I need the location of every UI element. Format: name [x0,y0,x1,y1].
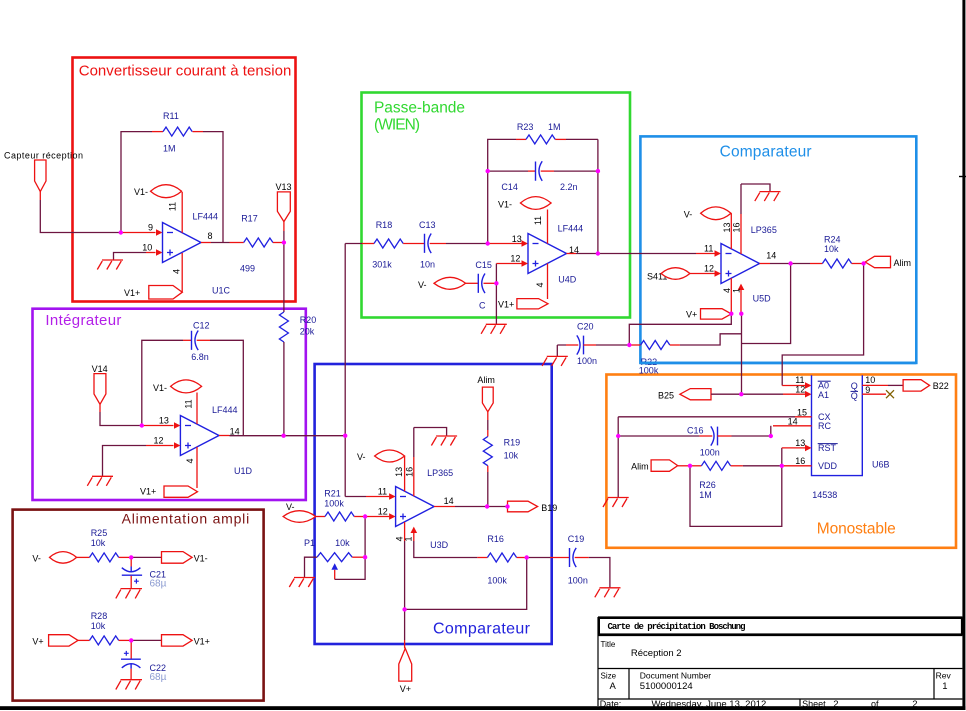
wire R20 node to comparator feed [284,435,346,437]
power flag V+ U5D [701,309,732,319]
svg-text:RC: RC [818,421,831,431]
wire V+ lead bottom comparator [404,609,406,640]
power flag Alim monostable [651,460,678,471]
capacitor C20 [577,335,584,354]
wire C14 right branch [554,170,598,172]
wire pin1 to R16 [414,541,478,558]
pin arrow 13 U4D [522,240,529,247]
node R21 pin12 [363,514,367,518]
svg-text:U1D: U1D [234,466,253,476]
wire pin10 to ground [114,253,147,260]
resistor R22 [641,341,670,350]
svg-text:1M: 1M [163,144,176,154]
wire CX down to ground [617,417,619,497]
power symbol V1- U1C [151,185,182,198]
wire R16 right lead [517,557,527,559]
svg-text:13: 13 [722,222,732,232]
capacitor C21 [122,567,142,576]
wire C22 top lead [130,640,132,659]
svg-text:R24: R24 [824,235,841,245]
svg-text:11: 11 [168,202,178,211]
wire pin12 red stub U1D [146,445,174,447]
svg-text:V1+: V1+ [124,288,140,298]
pin arrow 12 U1D [174,442,180,449]
svg-text:C15: C15 [475,260,492,270]
wire pin1 node down to B25 line [741,314,743,394]
wire U5D output to node [770,263,791,265]
power flag V1+ U1C [149,286,183,300]
port Alim R19 [482,387,493,412]
wire C15 node to ground [495,283,497,324]
svg-text:R23: R23 [517,122,534,132]
node C13 feedback [486,241,490,245]
ground C22 [116,680,142,690]
op-amp U1D triangle [180,416,219,456]
wire pin4 U4D [547,263,549,299]
ground U1D input [87,476,113,486]
svg-text:LF444: LF444 [558,224,584,234]
wire C16 left branch [618,435,699,437]
pin arrow 12 U3D [389,513,396,520]
comparator top box bottom edge overlay [640,362,916,365]
svg-text:100n: 100n [700,447,720,457]
svg-text:10k: 10k [91,538,106,548]
wire C20 to R22 node [596,344,629,346]
wire C19 left branch [527,557,550,559]
wire A1 red stub [783,393,805,395]
wire C16 discharge loop [690,466,782,527]
svg-text:Sheet: Sheet [802,699,826,709]
svg-text:C12: C12 [193,321,210,331]
wire R17 right lead [273,242,284,244]
node R28 C22 [129,638,133,642]
svg-text:1M: 1M [548,122,561,132]
wire R28 right lead [119,639,132,641]
svg-text:Q: Q [851,381,858,391]
op-amp U1D minus mark [185,425,191,427]
node R16 return V+ [402,607,406,611]
node R25 C21 [129,555,133,559]
wire R11 right lead [193,131,204,133]
wire node to pin12 U3D [365,516,389,518]
svg-text:Alim: Alim [894,258,912,268]
svg-text:16: 16 [404,467,414,477]
ground C20 [542,356,568,366]
wire C12 feedback left vertical [142,340,183,425]
wire feedback top right [566,139,598,253]
port V13 [277,192,290,222]
wire B25 to node [711,393,742,395]
svg-text:4: 4 [722,288,732,293]
wire V14 lead [99,404,101,412]
wire node to V1+ flag [131,639,161,641]
svg-text:U6B: U6B [872,460,890,470]
resistor R21 [325,512,354,521]
svg-text:68µ: 68µ [150,579,167,590]
page border tick [959,176,966,178]
pin arrow 10 [156,249,163,256]
svg-text:11: 11 [184,399,194,408]
wire R25 right lead [119,556,132,558]
ground monostable [603,498,629,508]
node R24 Alim [861,261,865,265]
svg-text:12: 12 [704,263,714,273]
svg-text:Convertisseur courant à tensio: Convertisseur courant à tension [79,63,292,80]
svg-text:U4D: U4D [558,275,577,285]
block box: Integrateur [33,309,306,500]
power symbol V- C15 [434,277,466,289]
wire R23 right lead [555,138,566,140]
svg-text:Alimentation ampli: Alimentation ampli [122,511,250,527]
resistor R23 [526,135,555,144]
wire R26 right lead [731,465,743,467]
wire R21 node down to P1 [364,517,366,558]
wire pin11 U1D [196,393,198,425]
svg-text:1M: 1M [699,490,712,500]
pin arrow 1 U3D [411,527,418,533]
svg-text:RST: RST [818,443,837,453]
node U1C input [119,230,123,234]
wire R11 left lead [152,131,163,133]
wire C14 right lead [541,170,554,172]
power flag V1+ U4D [517,299,548,309]
wire RST red stub [782,447,805,449]
wire U1D output stub [219,435,230,437]
block box: Comparateur bottom [315,364,552,644]
svg-text:Document Number: Document Number [640,671,712,681]
node R19 out [485,504,489,508]
svg-text:V1-: V1- [194,554,208,564]
svg-text:V-: V- [418,280,427,290]
svg-text:Monostable: Monostable [817,521,896,538]
wire C13 right lead [430,243,446,245]
svg-text:10k: 10k [504,451,519,461]
svg-text:11: 11 [378,486,387,496]
svg-text:4: 4 [535,282,545,287]
node C14 left [486,169,490,173]
wire R16 left lead [477,557,487,559]
wire U3D output stub [434,506,455,508]
op-amp U3D minus mark [400,496,406,498]
wire Alim to R19 [487,420,489,430]
op-amp U4D minus mark [533,243,539,245]
block box: Alimentation ampli [13,510,264,701]
wire pin16 red stub U3D [413,457,415,496]
wire corner to pin11 U3D [345,496,366,498]
svg-text:10: 10 [142,243,152,253]
svg-text:10: 10 [865,375,875,385]
wire V- to C15 [466,282,478,284]
wire R18 to C13 [403,243,424,245]
pin arrow 11 U5D [715,250,722,257]
svg-text:Passe-bande: Passe-bande [374,100,465,117]
wire RC red stub [773,425,812,427]
wire V+ jog to R22 and C20 node [629,314,731,345]
node R16 C19 [525,555,529,559]
potentiometer P1 [317,553,352,562]
wire capteur to opamp input [40,200,121,233]
wire R19 top lead [487,430,489,437]
svg-text:V1+: V1+ [498,300,514,310]
wire pin4 U3D [404,522,406,541]
svg-text:100k: 100k [487,576,507,586]
port V14 [94,374,106,405]
svg-text:C19: C19 [568,534,585,544]
node B25 A1 [739,392,743,396]
svg-text:C16: C16 [687,426,704,436]
wire R16 feedback return [405,558,527,610]
title block header box bold [599,618,962,634]
svg-text:Rev: Rev [936,671,952,681]
wire node to R20 [283,243,285,313]
pin arrow 11 U3D [389,493,396,500]
svg-text:Réception 2: Réception 2 [631,648,682,659]
svg-text:100k: 100k [324,498,344,508]
wire U5D output down jog [742,264,791,344]
svg-text:14538: 14538 [812,490,837,500]
node C15 [494,281,498,285]
svg-text:U5D: U5D [753,294,772,304]
wire C19 right lead [575,557,589,559]
port V+ bottom [399,648,412,681]
svg-text:LF444: LF444 [193,212,219,222]
svg-text:10k: 10k [824,244,839,254]
svg-text:499: 499 [240,264,255,274]
ground U5D top [755,192,781,202]
svg-text:14: 14 [766,251,776,261]
svg-text:Q: Q [851,391,858,401]
node V+ pin4 U5D [729,312,733,316]
svg-text:100k: 100k [639,366,659,376]
svg-text:P1: P1 [304,538,315,548]
svg-text:10n: 10n [420,259,435,269]
svg-text:4: 4 [185,458,195,463]
svg-text:LF444: LF444 [212,405,238,415]
wire Qbar output [862,393,886,395]
wire U4D output to node [576,253,598,255]
svg-text:R17: R17 [241,214,258,224]
svg-text:15: 15 [797,407,807,417]
wire V13 to node [283,231,285,243]
power symbol V1- U4D [520,197,551,210]
svg-text:A1: A1 [818,390,829,400]
op-amp U5D minus mark [726,253,732,255]
svg-text:R28: R28 [91,611,108,621]
node U1D out R20 [281,434,285,438]
wire R18 left lead [362,243,374,245]
wire V14 to pin13 [100,412,142,426]
wire R22 to pin1 node [680,334,742,345]
svg-text:V1-: V1- [498,200,512,210]
svg-text:Title: Title [601,640,616,649]
power flag V1+ U1D [164,486,198,497]
wire C16 right lead [718,435,732,437]
capacitor C15 [478,274,485,294]
potentiometer P1 wiper arrow [331,563,338,570]
resistor R18 [374,239,403,248]
svg-text:LP365: LP365 [427,468,453,478]
pin name Qbar overline [851,390,859,392]
wire V13 lead [283,222,285,231]
capacitor C16 [711,426,718,445]
block box: Convertisseur courant a tension [73,58,296,302]
svg-text:V1-: V1- [153,383,167,393]
wire R24 right lead [852,263,864,265]
capacitor C13 [425,234,432,254]
svg-text:Alim: Alim [477,375,495,385]
wire node to pin13 U4D [488,243,522,245]
node U4D out [596,251,600,255]
wire corner to R18 [345,243,362,245]
block box: Monostable [606,375,956,548]
wire R19 bottom lead [487,466,489,472]
pin arrow 12 U4D [522,260,529,267]
svg-text:U3D: U3D [430,540,449,550]
op-amp U1D plus mark [185,443,191,449]
power symbol V- R25 [50,552,77,564]
wire C15 right lead [484,282,497,284]
svg-text:Capteur réception: Capteur réception [4,151,83,161]
wire P1 right lead [352,556,365,558]
svg-text:V1+: V1+ [140,487,156,497]
svg-text:12: 12 [510,253,520,263]
pin arrow 9 [156,229,163,236]
svg-text:A: A [610,681,617,692]
pin name RST overline [818,443,838,445]
node C12 V14 pin13 [140,423,144,427]
capacitor C22 plus mark [124,651,129,656]
svg-text:R21: R21 [324,488,341,498]
svg-text:1: 1 [942,681,947,692]
wire U3D output to node [455,506,508,508]
wire feedback right vertical [203,132,223,243]
svg-text:V1-: V1- [134,187,148,197]
wire CX line [618,416,795,418]
svg-text:10k: 10k [91,621,106,631]
wire pin13 U5D [730,214,732,250]
flag B22 [903,380,930,391]
svg-text:5100000124: 5100000124 [640,681,693,692]
wire A1 line [742,393,784,395]
wire C12 right lead [197,339,210,341]
wire C12 left lead [183,339,192,341]
wire node to V1- flag [131,556,161,558]
wire S411 to pin12 [690,273,715,275]
svg-text:V14: V14 [92,364,108,374]
power symbol V1- U1D [171,380,202,393]
wire C19 to ground [589,558,610,588]
wire capteur lead [39,192,41,201]
wire pin11 U1C [181,192,183,233]
svg-text:Size: Size [601,672,617,681]
resistor R19 [483,437,492,466]
wire V+ to R28 [78,639,90,641]
node C16 RC [769,434,773,438]
wire C13 to feedback node [446,243,488,245]
svg-text:V+: V+ [32,636,43,646]
svg-text:U1C: U1C [212,286,231,296]
svg-text:C14: C14 [501,182,518,192]
wire node to pin13 [142,425,174,427]
svg-text:B22: B22 [933,381,949,391]
svg-text:Carte de précipitation Boschun: Carte de précipitation Boschung [608,622,746,632]
pin arrow 13 U1D [174,422,180,429]
svg-text:of: of [871,699,879,709]
ground below WIEN [481,324,507,334]
svg-text:B25: B25 [658,391,674,401]
svg-text:LP365: LP365 [751,225,777,235]
wire P1 wiper loop [335,557,365,579]
op-amp U3D plus mark [400,514,406,520]
wire R26 to VDD node [743,465,782,467]
wire pin11 red stub U5D [696,253,715,255]
svg-text:20k: 20k [300,326,315,336]
op-amp U5D plus mark [726,271,732,277]
svg-text:13: 13 [795,438,805,448]
power flag V1+ out [162,635,193,646]
resistor R16 [487,553,516,562]
wire CX red stub [795,416,812,418]
node Alim R26 [688,464,692,468]
wire C15 node riser to pin12 [495,264,497,284]
wire VDD red stub [782,465,812,467]
wire U4D output stub [567,253,577,255]
svg-text:Wednesday, June 13, 2012: Wednesday, June 13, 2012 [652,699,767,710]
wire R20 bottom to U1D output node [283,342,285,436]
ground C19 [595,588,621,598]
node C16 left [616,434,620,438]
svg-text:1: 1 [732,288,742,293]
svg-text:R11: R11 [163,111,179,121]
svg-text:2: 2 [912,699,917,710]
wire V+ red lead [404,640,406,648]
wire RST riser [781,448,783,466]
svg-text:14: 14 [444,496,454,506]
ground U1C input [97,260,123,270]
svg-text:10k: 10k [335,538,350,548]
wire pin4 U1C [181,253,183,292]
svg-text:R20: R20 [300,315,317,325]
wire pin16 red stub U5D [740,214,742,254]
power symbol V- R21 [283,511,316,523]
wire C12 feedback right vertical [210,340,243,435]
wire node to R24 [791,263,810,265]
wire Alim lead R19 [487,412,489,420]
svg-text:V13: V13 [276,182,292,192]
wire pin4 down to V+ [404,541,406,609]
svg-text:Comparateur: Comparateur [433,621,531,638]
resistor R26 [701,461,730,470]
wire R21 right lead [354,516,365,518]
ground U3D top [431,436,457,446]
wire pin12 to ground U1D [103,446,147,477]
wire pin16 upper U5D [741,184,770,214]
wire Alim node down to A0 [782,264,863,386]
pin arrow A1 [805,391,812,398]
wire A0 red stub [782,385,805,387]
svg-text:4: 4 [172,269,182,274]
svg-text:R26: R26 [699,480,716,490]
page bottom border [0,706,965,710]
wire R23 left lead [516,138,526,140]
wire pin11 U4D [547,210,549,244]
svg-text:2: 2 [833,699,838,710]
svg-text:100n: 100n [577,356,597,366]
wire feedback left vertical [121,132,152,233]
node R26 VDD RST [780,464,784,468]
svg-text:6.8n: 6.8n [191,352,209,362]
wire P1 wiper lead [334,570,336,580]
